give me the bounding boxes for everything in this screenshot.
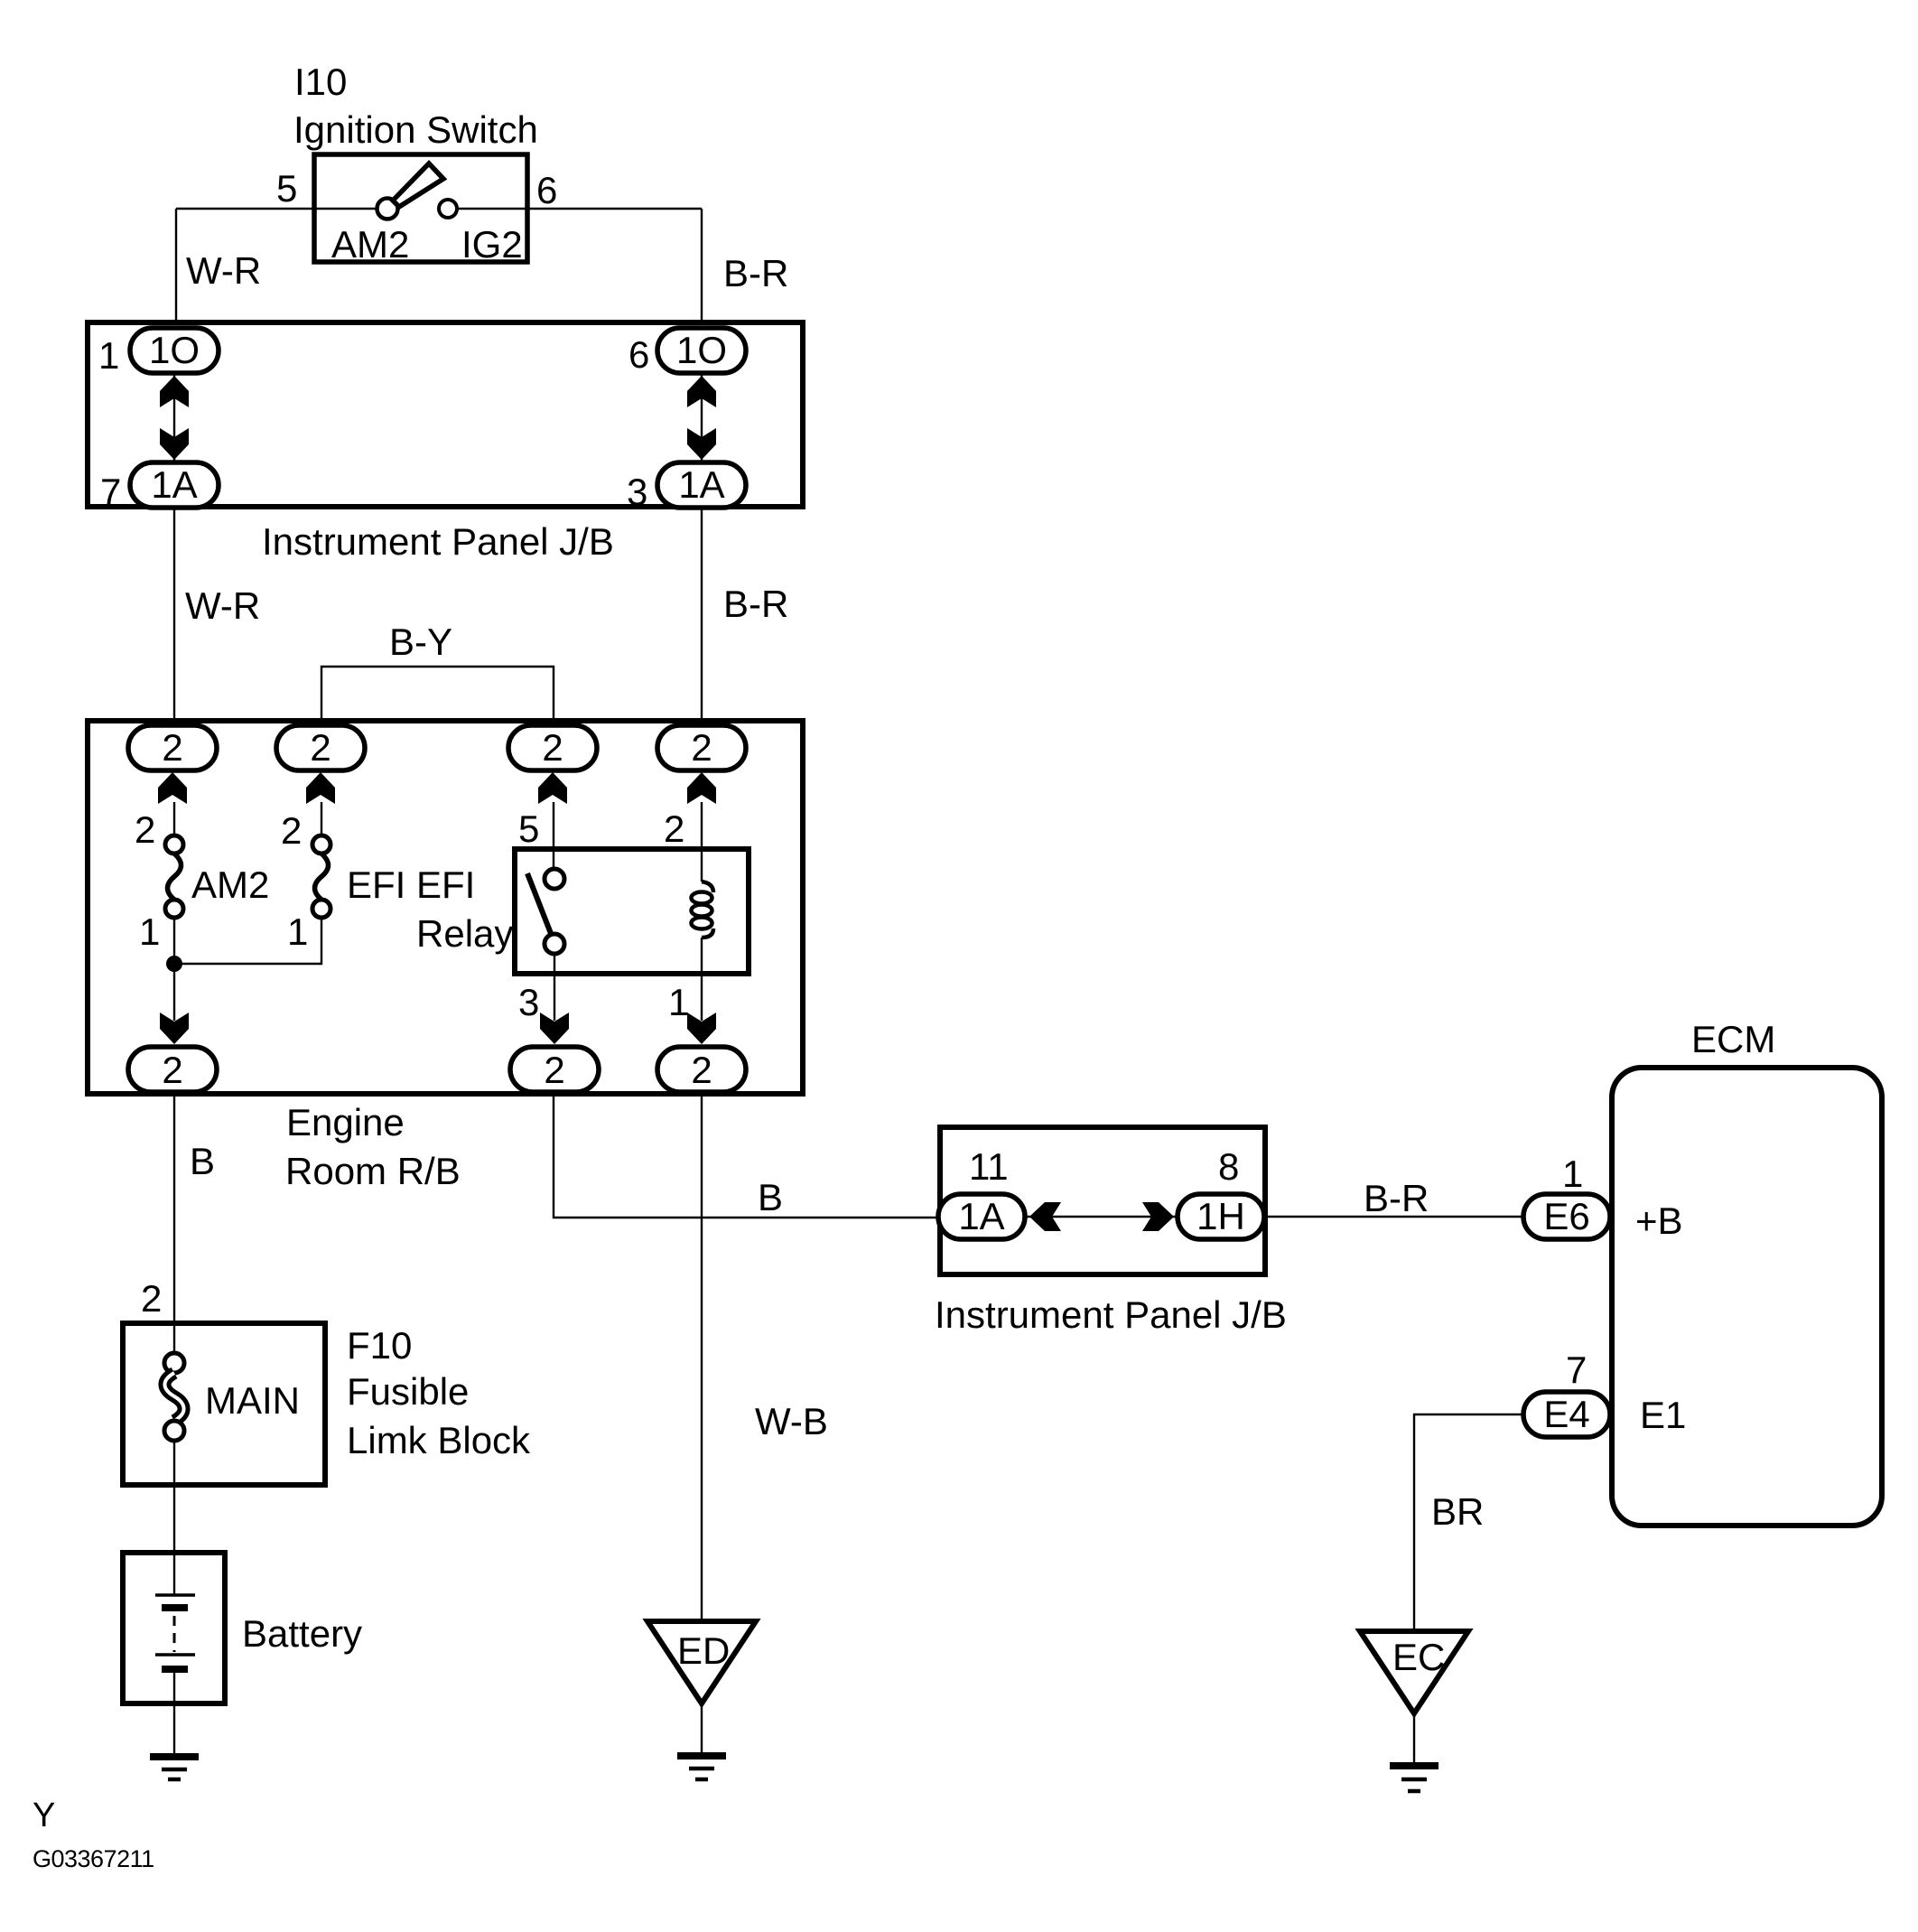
connector 2 bottom col4 [657, 1047, 746, 1092]
svg-text:6: 6 [536, 169, 557, 211]
connector 2 top col1 [128, 725, 217, 770]
svg-text:5: 5 [518, 807, 539, 850]
svg-text:8: 8 [1218, 1145, 1239, 1188]
ground triangle ED [647, 1621, 756, 1703]
ignition switch lever [393, 163, 443, 207]
EC ground bar 2 [1401, 1778, 1427, 1782]
EC ground bar 1 [1390, 1762, 1438, 1769]
down chevron col1 [160, 1013, 189, 1044]
svg-text:5: 5 [276, 167, 297, 210]
junction left chevron JB2 [1029, 1202, 1061, 1231]
connector 2 top col4 [657, 725, 746, 770]
svg-text:B-Y: B-Y [389, 621, 452, 663]
svg-text:2: 2 [162, 726, 182, 769]
svg-text:11: 11 [969, 1145, 1009, 1188]
down chevron col3 [540, 1013, 569, 1044]
svg-text:Y: Y [33, 1797, 55, 1834]
wire BR from E4 [1414, 1414, 1523, 1631]
battery ground bar 1 [150, 1753, 199, 1760]
svg-text:Ignition Switch: Ignition Switch [293, 108, 538, 151]
svg-text:W-B: W-B [755, 1400, 828, 1442]
wire B-Y bridge [321, 667, 554, 723]
svg-text:Relay: Relay [416, 912, 513, 955]
ED ground bar 3 [695, 1778, 708, 1782]
fusible link MAIN bottom contact [164, 1421, 184, 1441]
svg-text:Instrument Panel J/B: Instrument Panel J/B [935, 1293, 1287, 1336]
svg-text:B: B [190, 1140, 215, 1182]
connector 2 bottom col3 [510, 1047, 599, 1092]
junction right chevron JB2 [1142, 1202, 1174, 1231]
svg-text:2: 2 [162, 1049, 182, 1091]
connector E4 [1523, 1392, 1610, 1437]
junction arrow down chevron right [687, 428, 716, 460]
battery ground bar 3 [168, 1778, 181, 1782]
relay coil bottom arc [702, 929, 713, 938]
svg-text:1A: 1A [958, 1195, 1004, 1237]
svg-text:2: 2 [141, 1277, 162, 1320]
relay coil loop 3 [692, 918, 712, 929]
wire col2 to fuse EFI [321, 802, 322, 835]
svg-text:7: 7 [1566, 1349, 1587, 1391]
connector 2 top col3 [508, 725, 597, 770]
svg-text:Limk Block: Limk Block [347, 1419, 531, 1461]
wire W-R mid vertical [173, 509, 175, 723]
svg-text:B: B [758, 1176, 783, 1218]
svg-text:3: 3 [627, 471, 647, 513]
up chevron col4 [687, 772, 716, 804]
svg-text:1A: 1A [151, 463, 197, 506]
ignition switch contact AM2 [377, 199, 398, 219]
wire IG2 side horizontal [458, 208, 702, 210]
fuse EFI top contact [312, 835, 331, 854]
relay coil top arc [702, 882, 713, 892]
fuse AM2 element [168, 854, 182, 900]
wire B to fusible link [173, 1095, 175, 1353]
connector 1A JB2 [938, 1194, 1025, 1239]
svg-text:E4: E4 [1543, 1393, 1589, 1435]
ignition switch I10 box [314, 154, 527, 262]
wire battery to ground [173, 1673, 175, 1753]
svg-text:AM2: AM2 [191, 863, 269, 906]
svg-text:2: 2 [544, 1049, 564, 1091]
svg-text:Room R/B: Room R/B [285, 1150, 461, 1192]
fusible link block F10 box [123, 1323, 325, 1485]
wire B-R vertical to JB [701, 209, 703, 325]
svg-text:1: 1 [98, 334, 119, 377]
svg-text:Battery: Battery [242, 1612, 362, 1655]
connector 1A right [657, 462, 746, 508]
connector 2 top col2 [276, 725, 365, 770]
svg-text:EC: EC [1392, 1636, 1445, 1678]
ECM box [1612, 1068, 1882, 1526]
wire relay contact down [554, 954, 555, 1021]
svg-text:ED: ED [677, 1629, 730, 1672]
svg-text:+B: +B [1635, 1199, 1683, 1242]
junction arrow up chevron left [160, 376, 189, 407]
down chevron col4 [687, 1013, 716, 1044]
svg-text:2: 2 [542, 726, 563, 769]
junction arrow down chevron left [160, 428, 189, 460]
battery plate 2 negative [162, 1604, 188, 1611]
wire EC to ground [1413, 1713, 1415, 1762]
junction arrow line right [701, 375, 703, 461]
svg-text:3: 3 [518, 981, 539, 1023]
relay coil loop 2 [692, 905, 712, 917]
svg-text:G03367211: G03367211 [33, 1845, 154, 1872]
svg-text:MAIN: MAIN [205, 1379, 300, 1422]
svg-text:W-R: W-R [186, 249, 261, 292]
svg-text:1: 1 [668, 981, 689, 1023]
engine room R/B box [88, 721, 803, 1094]
wire AM2 side horizontal [176, 208, 377, 210]
svg-text:F10: F10 [347, 1324, 412, 1367]
svg-text:2: 2 [664, 807, 684, 850]
fuse AM2 top contact [165, 835, 183, 854]
junction arrow line JB2 [1027, 1216, 1176, 1218]
svg-text:2: 2 [135, 808, 155, 851]
svg-text:1A: 1A [678, 463, 724, 506]
svg-text:1O: 1O [676, 329, 727, 371]
fuse EFI bottom contact [312, 900, 331, 918]
wire junction to fuse EFI [174, 918, 321, 964]
junction arrow line left [173, 375, 175, 461]
svg-text:7: 7 [100, 471, 121, 513]
svg-text:B-R: B-R [1364, 1177, 1429, 1219]
svg-text:Fusible: Fusible [347, 1370, 469, 1413]
svg-text:2: 2 [691, 1049, 712, 1091]
svg-text:W-R: W-R [185, 584, 260, 627]
svg-text:AM2: AM2 [331, 223, 409, 266]
up chevron col2 [306, 772, 335, 804]
connector 1H JB2 [1178, 1194, 1264, 1239]
junction arrow up chevron right [687, 376, 716, 407]
svg-text:E6: E6 [1543, 1195, 1589, 1237]
relay bottom contact [545, 934, 564, 954]
wire col1 to fuse AM2 [173, 802, 175, 835]
svg-text:IG2: IG2 [461, 223, 523, 266]
svg-text:1: 1 [287, 910, 308, 953]
fuse AM2 bottom contact [165, 900, 183, 918]
svg-text:1O: 1O [149, 329, 200, 371]
battery dashed cell link [173, 1616, 176, 1652]
svg-text:E1: E1 [1640, 1394, 1686, 1436]
connector 1O left [130, 328, 219, 373]
connector 2 bottom col1 [128, 1047, 217, 1092]
wire W-B vertical [701, 1095, 703, 1621]
junction node dot [166, 956, 182, 972]
relay top contact [545, 869, 564, 889]
fusible link MAIN element outline [164, 1373, 183, 1421]
svg-text:1: 1 [1562, 1153, 1583, 1195]
svg-text:EFI EFI: EFI EFI [347, 863, 475, 906]
EFI relay box [515, 849, 749, 974]
relay coil loop 1 [692, 892, 712, 904]
battery ground bar 2 [162, 1768, 187, 1772]
battery plate 4 negative [162, 1666, 188, 1673]
EC ground bar 3 [1408, 1789, 1420, 1794]
battery plate 1 positive [155, 1593, 195, 1597]
ED ground bar 2 [689, 1767, 714, 1771]
wire B-R mid vertical [701, 509, 703, 723]
ignition switch contact IG2 [439, 200, 457, 218]
wire B-R to ECM [1266, 1216, 1524, 1218]
svg-text:2: 2 [281, 809, 302, 852]
wire col4 to coil [701, 802, 703, 882]
relay lever [527, 873, 552, 936]
wire W-R vertical to JB [175, 209, 177, 325]
wire col3 to relay contact [553, 802, 554, 869]
svg-text:1: 1 [139, 910, 160, 953]
svg-text:B-R: B-R [723, 583, 788, 625]
svg-text:BR: BR [1431, 1490, 1484, 1533]
connector 1A left [130, 462, 219, 508]
wire fuse AM2 to junction [173, 918, 175, 1021]
battery box [123, 1553, 225, 1703]
instrument panel J/B box [88, 322, 803, 507]
svg-text:Instrument Panel J/B: Instrument Panel J/B [262, 520, 614, 563]
wire fusible link to battery [173, 1441, 175, 1594]
svg-text:2: 2 [310, 726, 331, 769]
svg-text:ECM: ECM [1691, 1018, 1775, 1060]
battery plate 3 positive [155, 1653, 195, 1657]
svg-text:1H: 1H [1196, 1195, 1245, 1237]
wire B to instrument panel JB [554, 1095, 938, 1218]
wire ED to ground [701, 1703, 703, 1752]
ground triangle EC [1360, 1631, 1468, 1713]
up chevron col1 [158, 772, 187, 804]
instrument panel J/B 2 box [940, 1127, 1265, 1274]
wire coil down [701, 938, 703, 1021]
fuse EFI element [315, 854, 329, 900]
ED ground bar 1 [677, 1752, 726, 1759]
svg-text:6: 6 [628, 333, 649, 376]
fusible link MAIN top contact [164, 1353, 184, 1373]
fusible link MAIN element core [164, 1373, 183, 1421]
svg-text:B-R: B-R [723, 252, 788, 294]
svg-text:I10: I10 [294, 61, 347, 103]
connector E6 [1523, 1194, 1610, 1239]
svg-text:Engine: Engine [286, 1101, 405, 1143]
up chevron col3 [538, 772, 567, 804]
connector 1O right [657, 328, 746, 373]
svg-text:2: 2 [691, 726, 712, 769]
